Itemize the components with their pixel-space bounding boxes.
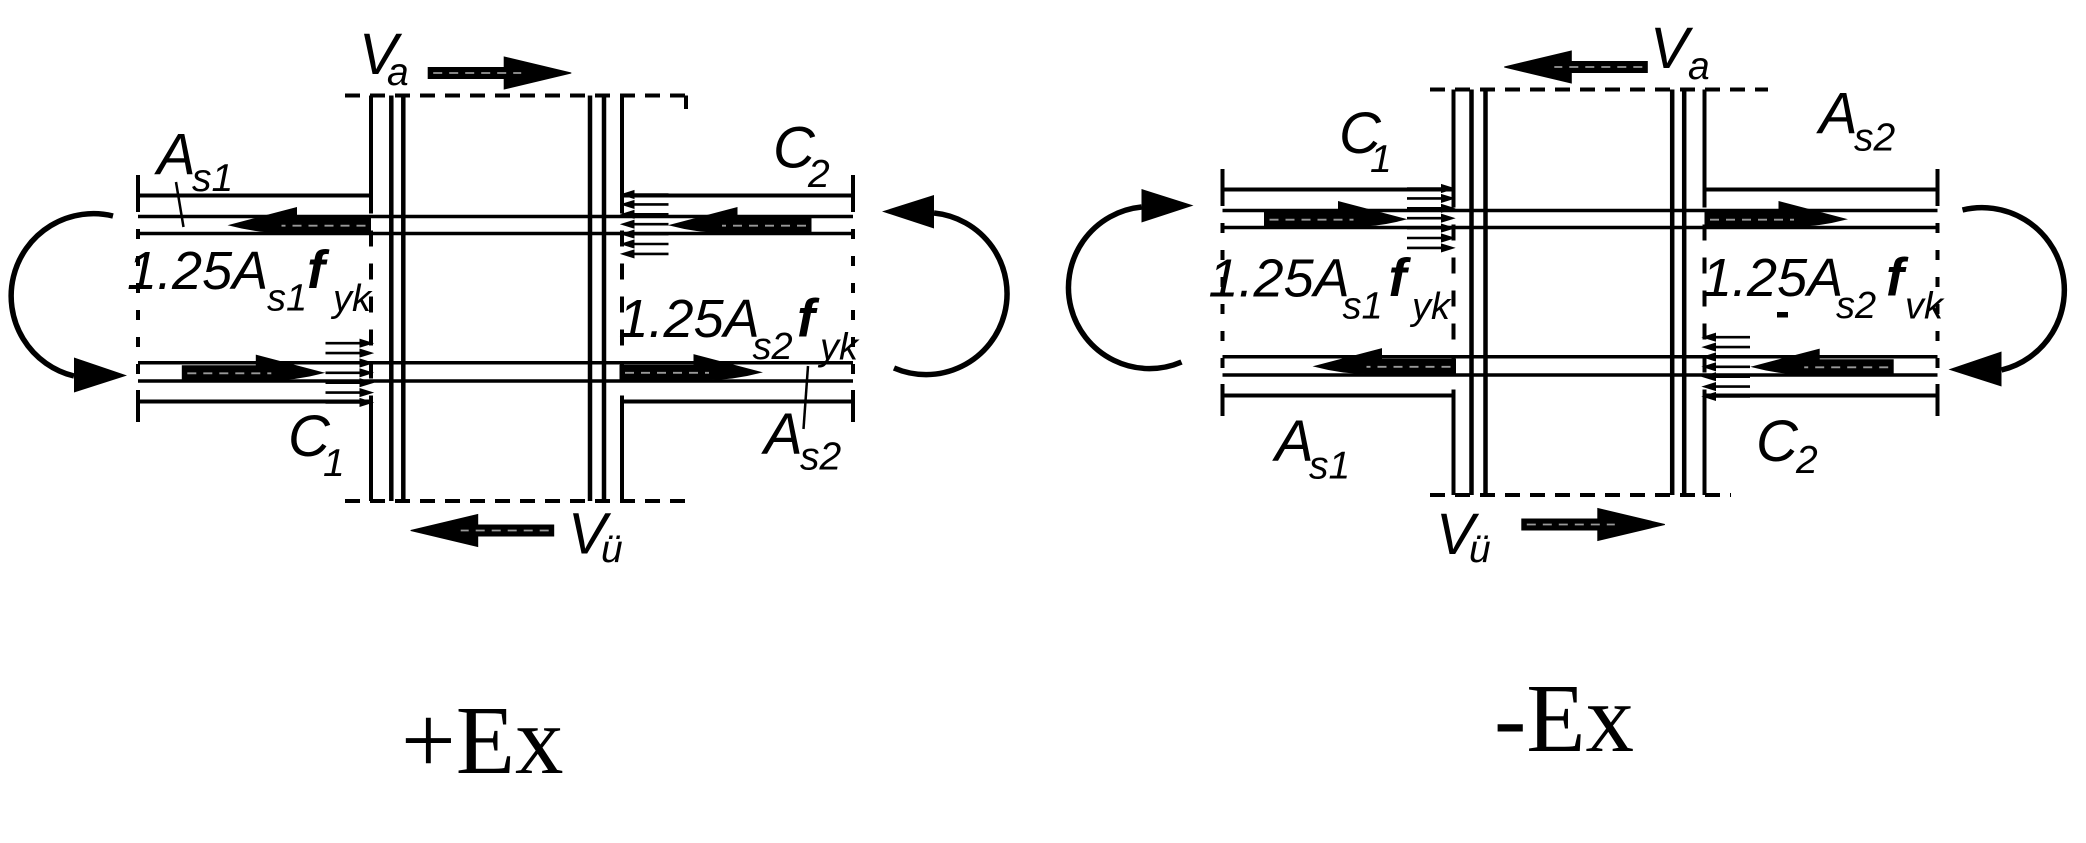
- svg-text:1: 1: [323, 442, 345, 485]
- +Ex joint diagram (left): [11, 57, 1007, 547]
- svg-text:s2: s2: [753, 326, 793, 368]
- svg-text:f: f: [797, 289, 820, 349]
- svg-text:yk: yk: [330, 278, 373, 320]
- leader line As2 (left diagram): [804, 366, 809, 429]
- svg-text:1: 1: [1370, 138, 1392, 181]
- top cut line end tick (left diagram): [684, 96, 688, 110]
- svg-text:s1: s1: [1309, 445, 1350, 488]
- svg-text:1.25A: 1.25A: [619, 289, 760, 349]
- svg-text:+Ex: +Ex: [401, 687, 563, 794]
- leader line As1 (left diagram): [176, 182, 184, 227]
- -Ex joint diagram (right, mirrored): [1068, 51, 2064, 541]
- svg-text:f: f: [307, 240, 330, 300]
- svg-text:s1: s1: [267, 278, 307, 320]
- svg-text:A: A: [1816, 82, 1858, 147]
- svg-text:C: C: [1756, 409, 1799, 474]
- svg-text:ü: ü: [601, 528, 623, 571]
- svg-text:s2: s2: [1836, 285, 1876, 327]
- svg-text:1.25A: 1.25A: [127, 241, 268, 301]
- svg-text:-Ex: -Ex: [1494, 665, 1634, 772]
- svg-text:s2: s2: [800, 436, 842, 479]
- svg-text:2: 2: [1795, 439, 1818, 482]
- svg-text:A: A: [154, 123, 196, 188]
- svg-text:A: A: [1272, 409, 1314, 474]
- svg-text:yk: yk: [817, 327, 860, 369]
- svg-text:ü: ü: [1469, 528, 1491, 571]
- svg-text:1.25A: 1.25A: [1209, 249, 1350, 309]
- stray scan mark (right diagram): [1777, 312, 1788, 318]
- svg-text:s1: s1: [1343, 286, 1383, 328]
- svg-text:A: A: [761, 402, 803, 467]
- column cut dashed lines left diagram: [345, 96, 693, 502]
- svg-text:a: a: [387, 51, 409, 94]
- svg-text:vk: vk: [1905, 286, 1945, 328]
- svg-text:a: a: [1688, 45, 1710, 88]
- svg-text:f: f: [1389, 248, 1412, 308]
- svg-text:1.25A: 1.25A: [1702, 248, 1843, 308]
- svg-text:yk: yk: [1409, 286, 1452, 328]
- column cut dashed lines right diagram: [1430, 90, 1768, 496]
- svg-text:2: 2: [807, 153, 830, 196]
- svg-text:s2: s2: [1854, 117, 1896, 160]
- svg-text:s1: s1: [192, 157, 233, 200]
